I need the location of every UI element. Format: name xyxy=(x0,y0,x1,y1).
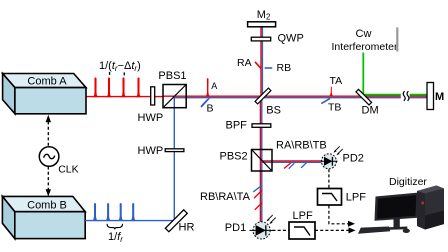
quarter-wave plate QWP xyxy=(251,37,270,41)
low-pass filter LPF (PD1 chain) xyxy=(289,210,315,239)
svg-text:TA: TA xyxy=(330,75,343,87)
wire: green cw beam from interferometer down and right to M xyxy=(363,53,427,95)
svg-text:HWP: HWP xyxy=(138,112,164,124)
half-wave plate HWP2 xyxy=(165,149,184,152)
wire: red+blue beam BS up to M2 xyxy=(260,27,262,96)
keyboard xyxy=(358,227,390,234)
svg-text:DM: DM xyxy=(362,105,379,117)
low-pass filter LPF (PD2 chain) xyxy=(318,189,367,206)
svg-text:RB: RB xyxy=(277,62,292,74)
dashed link PD2 to LPF xyxy=(328,169,330,188)
polarizing beam splitter PBS1 xyxy=(158,70,186,108)
clock source CLK xyxy=(39,147,59,167)
pulse marker A (red) xyxy=(205,78,210,97)
svg-text:PBS2: PBS2 xyxy=(220,151,248,163)
photodetector PD1 xyxy=(225,215,276,239)
svg-text:Interferometer: Interferometer xyxy=(332,41,398,53)
underbrace for 1/fr xyxy=(107,224,123,230)
mirror M2 xyxy=(248,22,276,27)
dashed link LPF to digitizer (lower arrow) xyxy=(315,229,349,231)
wire: blue beam HR up to PBS1 and right to BS xyxy=(174,98,262,221)
polarization ticks on PD2 beam xyxy=(284,163,291,169)
clock CLK dashed sync lines and arrows xyxy=(39,115,78,197)
svg-text:PBS1: PBS1 xyxy=(158,70,186,82)
svg-text:RB\RA\TA: RB\RA\TA xyxy=(200,191,251,203)
svg-text:Digitizer: Digitizer xyxy=(389,176,427,188)
pulse marker TB (blue diagonal) xyxy=(321,98,330,103)
wire: red beam Comb A to PBS1 xyxy=(86,96,163,98)
svg-text:B: B xyxy=(207,103,214,115)
pulse train A (red pulses) xyxy=(93,77,141,97)
pulse marker TA (red) xyxy=(329,87,334,97)
svg-text:LPF: LPF xyxy=(346,191,366,203)
wire: red+blue beam BS to mirror M (break gap drawn later) xyxy=(262,95,427,97)
digitizer computer graphic xyxy=(358,186,444,234)
beam splitter BS (plate) xyxy=(255,88,281,116)
pulse marker B (blue, diagonal) xyxy=(200,98,211,108)
svg-text:PD2: PD2 xyxy=(343,153,364,165)
mirror M xyxy=(427,83,434,110)
half-wave plate HWP1 xyxy=(151,87,155,105)
wire: red+blue beam PBS2 to PD2 xyxy=(262,160,322,162)
comb source Comb B (3D box) xyxy=(2,196,85,238)
wire: red beam PBS1 to BS xyxy=(163,95,262,97)
svg-text:Comb A: Comb A xyxy=(27,75,67,87)
svg-text:HR: HR xyxy=(179,222,195,234)
svg-text:M: M xyxy=(435,91,444,103)
svg-text:QWP: QWP xyxy=(278,33,304,45)
dashed link PD1 to LPF xyxy=(273,229,290,231)
svg-text:RA: RA xyxy=(237,57,252,69)
svg-text:A: A xyxy=(211,81,217,91)
svg-text:BPF: BPF xyxy=(226,120,248,132)
band-pass filter BPF xyxy=(252,124,271,128)
mirror HR (diagonal) xyxy=(165,210,194,234)
wire: red+blue beam BS down through BPF and PBS2 to PD1 xyxy=(259,97,261,222)
polarization marker RB (blue dash) xyxy=(265,67,273,69)
polarization marker RA (red diagonal) xyxy=(255,62,261,69)
polarization ticks on PD1 beam xyxy=(253,186,261,192)
monitor xyxy=(375,193,420,221)
comb source Comb A (3D box) xyxy=(3,74,86,114)
dashed link LPF to digitizer (upper arrow) xyxy=(329,206,349,224)
tick pointers under label xyxy=(109,72,110,75)
svg-text:LPF: LPF xyxy=(293,210,313,222)
svg-text:HWP: HWP xyxy=(138,145,164,157)
beam break symbol xyxy=(401,89,410,102)
svg-text:BS: BS xyxy=(266,105,281,117)
svg-text:Cw: Cw xyxy=(356,28,372,40)
pulse train B (blue pulses) xyxy=(92,203,135,221)
polarizing beam splitter PBS2 xyxy=(220,150,273,172)
gray line right of cw interferometer xyxy=(396,27,398,51)
tower xyxy=(417,186,444,230)
svg-text:PD1: PD1 xyxy=(225,222,246,234)
svg-text:Comb B: Comb B xyxy=(27,199,67,211)
svg-text:CLK: CLK xyxy=(58,163,78,175)
photodetector PD2 xyxy=(321,146,364,169)
svg-text:TB: TB xyxy=(328,102,341,114)
dichroic mirror DM xyxy=(356,89,379,116)
svg-text:RA\RB\TB: RA\RB\TB xyxy=(276,140,327,152)
mouse xyxy=(403,229,410,233)
wire: blue beam Comb B to HR xyxy=(85,220,174,222)
